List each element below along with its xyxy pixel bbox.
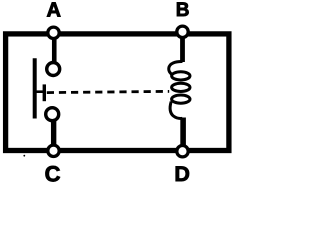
terminal B [177, 26, 188, 37]
coil entry curve [169, 61, 183, 74]
wire coil to D [180, 118, 186, 148]
lower fixed contact [46, 108, 59, 121]
coil loop 1 [172, 72, 190, 80]
wire B to coil [180, 36, 185, 62]
terminal C [48, 145, 59, 156]
svg-text:B: B [176, 0, 190, 21]
svg-text:C: C [45, 162, 61, 187]
coil loop 3 [172, 95, 190, 103]
wire A to upper contact [52, 37, 57, 62]
wire lower contact to C [51, 121, 56, 146]
switch armature bar [33, 58, 37, 118]
relay enclosure box [6, 34, 229, 151]
upper fixed contact [47, 63, 60, 76]
terminal A [48, 27, 59, 38]
coil loop 2 [172, 83, 190, 91]
armature link [35, 90, 46, 93]
coil exit curve [170, 102, 182, 119]
dashed mechanical linkage [47, 91, 169, 92]
scan speck [23, 155, 25, 157]
terminal D [177, 146, 188, 157]
svg-text:D: D [174, 162, 190, 186]
armature pivot bar [43, 84, 46, 101]
svg-text:A: A [46, 0, 60, 22]
